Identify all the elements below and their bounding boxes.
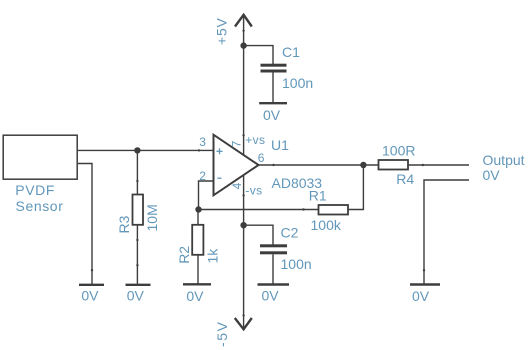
svg-text:0V: 0V xyxy=(263,107,281,123)
component PVDF sensor box xyxy=(3,135,77,179)
svg-text:R4: R4 xyxy=(396,171,414,187)
node sensor ground stem end xyxy=(91,269,93,271)
node -5V stem end xyxy=(242,314,244,316)
wire op-amp -vs rail down to -5V xyxy=(243,175,245,329)
ground C2 xyxy=(258,283,290,285)
op-amp non-inverting input plus sign xyxy=(217,148,223,154)
svg-text:10M: 10M xyxy=(144,204,160,231)
svg-text:R1: R1 xyxy=(309,187,327,203)
wire junction to C1 top xyxy=(244,46,273,64)
node pin4 stub end xyxy=(242,194,244,196)
node R3 top lead end xyxy=(136,180,138,182)
svg-text:0V: 0V xyxy=(186,288,204,304)
svg-text:R2: R2 xyxy=(176,246,192,264)
node junction +5V rail / C1 xyxy=(240,42,246,48)
wire R3 bottom lead to ground xyxy=(136,226,138,285)
svg-text:+vs: +vs xyxy=(245,133,265,147)
node pin3 stub end xyxy=(198,149,200,151)
node junction sensor / R3 xyxy=(134,147,140,153)
svg-text:Sensor: Sensor xyxy=(16,198,64,214)
wire R2 top lead xyxy=(197,210,199,225)
wire R3 top lead xyxy=(136,150,138,194)
svg-text:-vs: -vs xyxy=(245,184,262,198)
power +5V symbol xyxy=(235,15,252,27)
node junction pin2 / R2 / R1 xyxy=(195,206,201,212)
svg-text:100R: 100R xyxy=(382,143,415,159)
wire R1 right lead up to output node xyxy=(349,165,364,210)
svg-text:PVDF: PVDF xyxy=(15,182,55,198)
op-amp inverting input minus sign xyxy=(217,177,221,179)
svg-text:3: 3 xyxy=(199,135,206,149)
wire C2 bottom to ground xyxy=(272,254,274,283)
node +5V stem end xyxy=(242,30,244,32)
node R3 bottom lead end xyxy=(136,239,138,241)
svg-text:Output: Output xyxy=(483,152,525,168)
svg-text:100n: 100n xyxy=(282,75,313,91)
wire output 0V return xyxy=(424,180,469,284)
power -5V symbol xyxy=(235,318,252,329)
svg-text:+5V: +5V xyxy=(214,17,230,45)
resistor R3 xyxy=(133,195,144,225)
wire op-amp output to R4 xyxy=(259,164,379,166)
wire C1 bottom to ground xyxy=(272,73,274,103)
node output ground stem end xyxy=(423,269,425,271)
ground sensor xyxy=(79,284,104,286)
capacitor C2 xyxy=(260,244,287,254)
svg-text:0V: 0V xyxy=(483,167,501,183)
wire +5V rail down to op-amp +vs pin xyxy=(243,15,245,155)
resistor R2 xyxy=(192,225,203,255)
node R1 left lead end xyxy=(302,208,304,210)
node pin6 stub end xyxy=(272,164,274,166)
ground R3 xyxy=(126,284,151,286)
wire R2 bottom lead to ground xyxy=(197,256,199,284)
wire junction to C2 top xyxy=(244,225,273,244)
svg-text:0V: 0V xyxy=(127,288,145,304)
svg-text:R3: R3 xyxy=(116,215,132,233)
wire sensor to op-amp pin 3 xyxy=(78,149,214,151)
node pin7 stub end xyxy=(242,134,244,136)
capacitor C1 xyxy=(261,64,287,73)
ground output return xyxy=(410,283,440,285)
op-amp U1 triangle xyxy=(214,135,259,196)
svg-text:1k: 1k xyxy=(205,248,221,264)
node R3 ground stem end xyxy=(136,264,138,266)
lead endpoint dots xyxy=(91,30,425,317)
wire feedback node to R1 left lead xyxy=(199,209,319,211)
svg-text:7: 7 xyxy=(229,140,243,147)
resistor R1 xyxy=(319,205,349,215)
svg-text:0V: 0V xyxy=(81,288,99,304)
svg-text:100n: 100n xyxy=(281,256,312,272)
svg-text:6: 6 xyxy=(258,151,265,165)
wire op-amp pin 2 to feedback node xyxy=(199,181,214,210)
svg-text:4: 4 xyxy=(230,182,244,189)
svg-text:U1: U1 xyxy=(271,137,289,153)
wire sensor lower terminal to ground xyxy=(78,164,92,285)
ground R2 xyxy=(183,283,211,285)
svg-text:C1: C1 xyxy=(282,44,300,60)
ground C1 xyxy=(259,102,287,104)
node junction output / feedback xyxy=(360,162,366,168)
svg-text:-5V: -5V xyxy=(214,320,230,347)
node R4 right lead end xyxy=(422,164,424,166)
svg-text:2: 2 xyxy=(199,169,206,183)
svg-text:100k: 100k xyxy=(311,217,342,233)
wire R4 to output terminal xyxy=(409,164,470,166)
svg-text:C2: C2 xyxy=(281,225,299,241)
svg-text:0V: 0V xyxy=(262,288,280,304)
svg-text:0V: 0V xyxy=(412,288,430,304)
node junction -5V rail / C2 xyxy=(240,222,246,228)
resistor R4 xyxy=(379,160,409,170)
